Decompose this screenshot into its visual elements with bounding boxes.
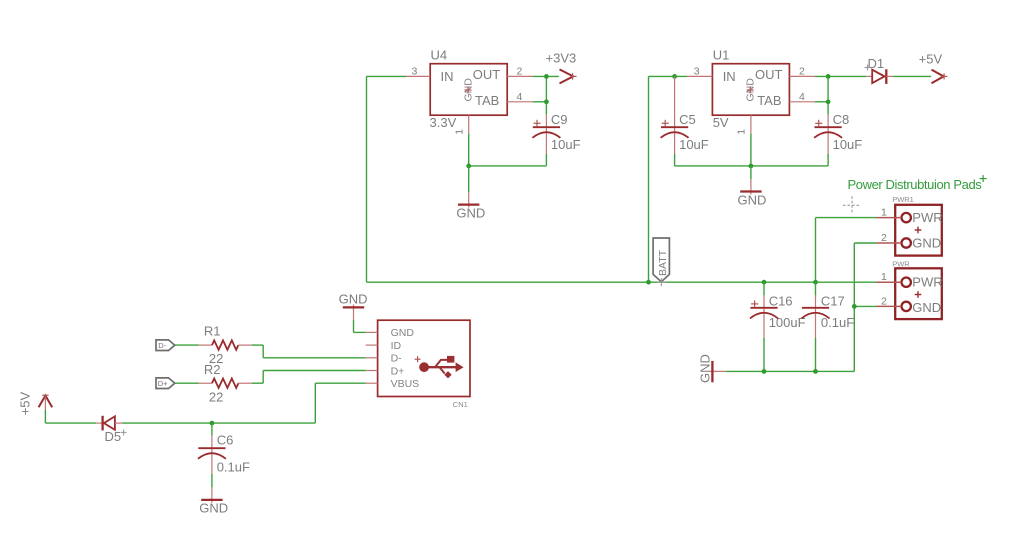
svg-text:R2: R2 [204, 362, 221, 377]
ground symbol under U4 [458, 192, 479, 207]
svg-text:D5: D5 [105, 429, 122, 444]
PWR1 pad 2 [902, 238, 911, 247]
wire PWR1 pin2 vertical ground [853, 243, 855, 371]
U1 pin 3 stub [687, 75, 712, 77]
svg-text:10uF: 10uF [551, 137, 581, 152]
wire VBUS riser vertical [314, 383, 316, 423]
wire U4 pin2 to +3V3 [533, 75, 559, 77]
wire C8 branch vertical [827, 76, 829, 101]
svg-text:1: 1 [881, 207, 887, 219]
op-amp U1 regulator box [712, 64, 789, 115]
PWR1 polarity plus [915, 227, 922, 234]
USB icon inside CN1 [419, 356, 463, 379]
USB icon origin plus [415, 356, 421, 362]
svg-text:ID: ID [391, 340, 402, 352]
wire U4 feed vertical [366, 76, 368, 282]
svg-text:C6: C6 [217, 433, 234, 448]
CN1 pin GND stub [366, 331, 378, 333]
junction C17 top [813, 280, 818, 285]
junction U1 pin3 C5 node [672, 74, 677, 79]
supply +3V3 arrow [560, 69, 577, 83]
PWR1 pin 1 stub [877, 217, 902, 219]
svg-text:1: 1 [736, 129, 748, 135]
svg-text:TAB: TAB [757, 93, 781, 108]
CN1 pin D+ stub [366, 370, 378, 372]
svg-text:CN1: CN1 [453, 400, 468, 409]
svg-text:PWR: PWR [912, 275, 942, 290]
wire R2 to CN1 D+ [263, 370, 365, 372]
capacitor C6 [198, 423, 226, 487]
wire C5 bottom [674, 154, 676, 166]
PWR pin 2 stub [877, 305, 902, 307]
svg-text:IN: IN [723, 69, 736, 84]
ground symbol under U1 [740, 179, 761, 194]
svg-text:D+: D+ [391, 365, 405, 377]
svg-text:D-: D- [391, 353, 403, 365]
wire C8 bottom [827, 154, 829, 166]
wire R1 corner down [262, 345, 264, 358]
svg-text:R1: R1 [204, 323, 221, 338]
svg-text:BATT: BATT [657, 249, 669, 276]
wire R1 to CN1 D- [263, 357, 365, 359]
svg-text:PWR: PWR [912, 210, 942, 225]
svg-text:OUT: OUT [473, 67, 501, 82]
wire PWR1 pin1 vertical to bus [815, 218, 817, 283]
svg-text:4: 4 [517, 91, 523, 103]
dashed origin cross [843, 196, 861, 214]
junction U4 pin2 node [544, 74, 549, 79]
PWR pad 1 [902, 278, 911, 287]
wire R2 to corner [252, 382, 263, 384]
resistor R1 [199, 340, 252, 349]
svg-text:D-: D- [158, 341, 166, 350]
connector PWR1 box [895, 205, 942, 256]
svg-text:C8: C8 [833, 112, 850, 127]
resistor R2 [199, 379, 252, 388]
svg-text:GND: GND [391, 327, 415, 339]
svg-text:+5V: +5V [17, 391, 32, 415]
svg-text:GND: GND [456, 206, 485, 221]
junction C16 bottom [762, 369, 767, 374]
wire +5V to D5 [45, 422, 96, 424]
wire PWR1 pin2 horizontal [854, 242, 876, 244]
capacitor C16 [750, 282, 778, 371]
wire U4 pin4 to node [533, 101, 547, 103]
svg-text:C17: C17 [821, 294, 845, 309]
junction U1 pin2 node [826, 74, 831, 79]
wire +3V3 branch vertical [545, 76, 547, 101]
svg-text:+5V: +5V [919, 52, 943, 67]
wire D- terminal to R1 [175, 344, 199, 346]
wire node down to C9 [545, 102, 547, 115]
connector CN1 box [378, 320, 470, 396]
svg-text:2: 2 [517, 66, 523, 78]
junction bus U1 feed [646, 280, 651, 285]
svg-text:GND: GND [339, 291, 368, 306]
ground symbol above CN1 [343, 305, 364, 320]
U1 pin 2 stub [789, 75, 814, 77]
wire C9 bottom [545, 154, 547, 166]
svg-text:VBUS: VBUS [391, 378, 420, 390]
junction U1 rail [749, 164, 754, 169]
PWR pin 1 stub [877, 281, 902, 283]
svg-text:GND: GND [912, 300, 941, 315]
ground symbol under C6 [201, 487, 222, 502]
wire U4 ground rail [469, 165, 547, 167]
supply +5V arrow left vertical [39, 395, 53, 410]
wire BATT bus horizontal [367, 281, 877, 283]
svg-text:+3V3: +3V3 [546, 51, 577, 66]
junction C6 tap [210, 421, 215, 426]
svg-text:22: 22 [209, 389, 223, 404]
net flag BATT [653, 238, 669, 286]
wire U1 rail to ground [750, 166, 752, 179]
wire U1 ground rail [675, 165, 829, 167]
diode D1 [866, 69, 892, 84]
svg-text:2: 2 [799, 66, 805, 78]
svg-text:0.1uF: 0.1uF [821, 315, 854, 330]
U4 pin 3 stub [406, 75, 430, 77]
wire U1 feed vertical [648, 76, 650, 282]
CN1 pin ID stub [366, 344, 378, 346]
junction C17 bottom [813, 369, 818, 374]
diode D5 [96, 416, 122, 431]
wire lower ground rail [726, 370, 855, 372]
svg-text:0.1uF: 0.1uF [217, 460, 250, 475]
wire PWR1 pin1 horizontal [816, 217, 877, 219]
svg-text:2: 2 [881, 232, 887, 244]
svg-text:4: 4 [799, 91, 805, 103]
wire U4 pin1 down [468, 134, 470, 166]
svg-text:U4: U4 [431, 48, 448, 63]
svg-text:5V: 5V [713, 115, 729, 130]
wire CN1 ground drop [353, 320, 355, 333]
U4 pin 1 stub [468, 115, 470, 133]
svg-text:IN: IN [441, 69, 454, 84]
svg-text:1: 1 [453, 129, 465, 135]
wire D5 to CN1 riser [122, 422, 315, 424]
supply +5V arrow right [932, 70, 948, 84]
capacitor C9 [532, 115, 560, 154]
wire D+ terminal to R2 [175, 382, 199, 384]
svg-text:C9: C9 [551, 112, 568, 127]
svg-text:OUT: OUT [755, 67, 783, 82]
terminal D+ [156, 378, 175, 389]
svg-text:3: 3 [412, 66, 418, 78]
U4 pin 2 stub [507, 75, 532, 77]
svg-text:PWR1: PWR1 [892, 195, 914, 204]
op-amp U4 regulator box [430, 64, 507, 115]
wire U4 rail to ground [468, 166, 470, 192]
D1 origin cross [865, 65, 871, 71]
CN1 pin D- stub [366, 357, 378, 359]
svg-text:GND: GND [738, 193, 767, 208]
wire U1 pin1 down [750, 134, 752, 166]
svg-text:3.3V: 3.3V [430, 115, 457, 130]
svg-text:GND: GND [199, 500, 228, 515]
junction C16 top [762, 280, 767, 285]
svg-text:10uF: 10uF [833, 137, 863, 152]
wire R2 corner up [262, 371, 264, 384]
svg-text:D1: D1 [868, 56, 885, 71]
junction U4 pin4 node [544, 99, 549, 104]
svg-text:10uF: 10uF [679, 137, 709, 152]
terminal D- [156, 340, 175, 351]
PWR1 pad 1 [902, 213, 911, 222]
junction U4 rail [466, 164, 471, 169]
U1 pin 1 stub [750, 115, 752, 133]
wire PWR pin2 horizontal [854, 305, 876, 307]
U1 pin 4 stub [789, 101, 814, 103]
wire CN1 ground to pin [354, 331, 366, 333]
svg-text:GND: GND [697, 354, 712, 383]
PWR polarity plus [915, 291, 922, 298]
PWR1 pin 2 stub [877, 242, 902, 244]
U1 GND pin red tick [747, 87, 754, 94]
junction PWR pin2 [852, 304, 857, 309]
wire R1 to corner [252, 344, 263, 346]
D5 origin cross [121, 429, 127, 435]
green title superscript plus [980, 175, 987, 182]
svg-text:3: 3 [694, 66, 700, 78]
connector PWR box [895, 268, 942, 319]
CN1 pin VBUS stub [366, 382, 378, 384]
wire U1 pin2 node [815, 75, 867, 77]
capacitor C5 [661, 76, 689, 154]
ground symbol rotated left of rail [710, 361, 726, 382]
svg-text:U1: U1 [713, 48, 730, 63]
wire U1 pin3 horizontal [649, 75, 688, 77]
svg-text:Power Distrubtuion Pads: Power Distrubtuion Pads [848, 177, 983, 192]
svg-text:TAB: TAB [475, 93, 499, 108]
U4 GND pin red tick [465, 87, 472, 94]
svg-text:GND: GND [912, 236, 941, 251]
wire U1 pin4 to node [815, 101, 828, 103]
capacitor C17 [802, 282, 830, 371]
svg-text:1: 1 [881, 271, 887, 283]
svg-text:C16: C16 [769, 294, 793, 309]
wire node down to C8 [827, 102, 829, 115]
svg-text:C5: C5 [679, 112, 696, 127]
PWR pad 2 [902, 302, 911, 311]
wire D1 to +5V [893, 75, 931, 77]
svg-text:D+: D+ [158, 379, 168, 388]
wire VBUS horizontal to CN1 [315, 382, 365, 384]
junction U1 pin4 node [826, 99, 831, 104]
U4 pin 4 stub [507, 101, 532, 103]
wire U4 pin3 horizontal [367, 75, 407, 77]
capacitor C8 [814, 115, 842, 154]
svg-text:100uF: 100uF [769, 315, 806, 330]
wire +5V down [44, 410, 46, 423]
